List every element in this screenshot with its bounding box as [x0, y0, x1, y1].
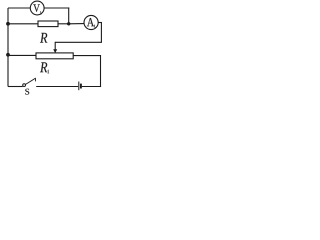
- node junction dot left rheostat row: [6, 53, 10, 57]
- rheostat R1: [36, 53, 73, 59]
- label R of resistor: [40, 33, 47, 43]
- wire voltmeter to top-right corner: [44, 7, 69, 9]
- node junction dot left R row: [6, 22, 10, 26]
- wire top left to voltmeter: [8, 7, 30, 9]
- label V subscript 1: [40, 11, 42, 14]
- wire node to resistor row left: [8, 23, 38, 25]
- wire resistor to node: [58, 23, 69, 25]
- voltmeter V: [30, 1, 44, 15]
- resistor R: [38, 21, 58, 27]
- wire bottom right battery to corner: [82, 86, 101, 88]
- label A subscript 1: [94, 25, 96, 28]
- node junction dot at resistor-ammeter tee: [67, 22, 70, 25]
- wire wiper horizontal: [55, 41, 102, 43]
- wire bottom left to switch: [8, 86, 23, 88]
- label R1 of rheostat: [40, 62, 47, 72]
- label S of switch: [25, 89, 29, 95]
- wire rheostat left terminal to left wire: [8, 54, 36, 56]
- wire right upper vertical ammeter to wiper level: [100, 23, 102, 43]
- wire right lower vertical: [100, 56, 102, 87]
- wire left vertical: [7, 8, 9, 87]
- wire node to ammeter: [69, 23, 85, 25]
- switch S: [23, 78, 36, 87]
- wire top-right vertical down to node: [68, 7, 70, 23]
- label V in voltmeter: [33, 4, 40, 11]
- rheostat wiper arrow: [53, 42, 57, 53]
- wire rheostat right terminal: [73, 55, 101, 57]
- ammeter A: [84, 15, 98, 29]
- label A in ammeter: [87, 18, 94, 26]
- wire ammeter to right corner: [98, 22, 102, 24]
- battery: [79, 82, 81, 91]
- label R1 subscript 1: [48, 70, 50, 73]
- wire battery to switch: [36, 86, 78, 88]
